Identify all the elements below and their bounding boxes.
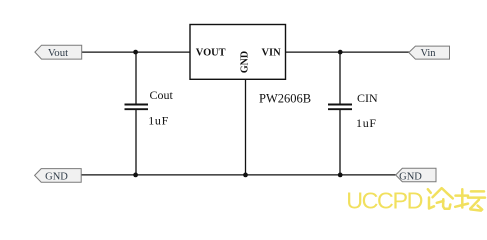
junction node Vout/Cout	[133, 50, 138, 55]
watermark glyph 论	[428, 188, 453, 209]
watermark glyph 坛	[455, 189, 485, 210]
net tag Vin	[409, 46, 450, 59]
junction node CIN/ground rail	[338, 173, 343, 178]
svg-text:VIN: VIN	[262, 48, 282, 59]
svg-text:Vout: Vout	[48, 47, 68, 59]
svg-text:CIN: CIN	[357, 91, 378, 105]
IC U1 PW2606B body	[190, 25, 286, 80]
svg-text:GND: GND	[399, 171, 422, 182]
net tag GND right	[396, 168, 436, 182]
svg-text:VOUT: VOUT	[196, 48, 226, 59]
wire CIN top lead	[339, 52, 341, 104]
svg-text:GND: GND	[240, 51, 251, 73]
wire CIN bottom lead to ground rail	[339, 109, 341, 175]
junction node U1 GND/ground rail	[243, 173, 248, 178]
net tag GND left	[35, 169, 82, 183]
wire ground rail	[81, 174, 396, 176]
junction node Cout/ground rail	[133, 173, 138, 178]
svg-text:GND: GND	[45, 172, 68, 183]
svg-text:1uF: 1uF	[148, 113, 169, 127]
svg-text:PW2606B: PW2606B	[259, 91, 311, 105]
wire Vout tag to U1 VOUT pin	[82, 51, 191, 53]
svg-text:Cout: Cout	[150, 88, 174, 102]
wire Cout bottom lead to ground rail	[135, 109, 137, 175]
capacitor CIN plates	[328, 105, 352, 110]
junction node Vin/CIN	[338, 50, 343, 55]
net tag Vout	[35, 45, 82, 59]
svg-text:Vin: Vin	[420, 48, 436, 59]
svg-text:UCCPD: UCCPD	[346, 188, 422, 214]
wire Cout top lead	[135, 52, 137, 104]
wire U1 VIN pin to Vin tag	[286, 51, 410, 53]
wire U1 GND pin to ground rail	[245, 79, 247, 175]
svg-text:1uF: 1uF	[356, 116, 377, 130]
capacitor Cout plates	[125, 105, 149, 110]
